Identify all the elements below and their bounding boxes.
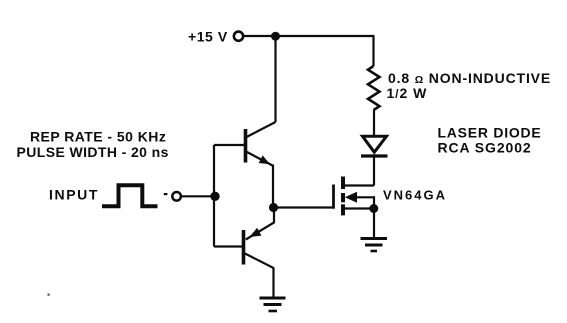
svg-text:PULSE WIDTH - 20 ns: PULSE WIDTH - 20 ns xyxy=(17,144,169,160)
svg-text:+15 V: +15 V xyxy=(188,29,228,45)
svg-text:1/2 W: 1/2 W xyxy=(387,85,428,101)
svg-text:RCA SG2002: RCA SG2002 xyxy=(438,140,532,156)
svg-text:INPUT: INPUT xyxy=(49,187,99,203)
svg-text:REP RATE - 50 KHz: REP RATE - 50 KHz xyxy=(30,129,166,145)
svg-text:0.8 Ω NON-INDUCTIVE: 0.8 Ω NON-INDUCTIVE xyxy=(388,70,551,86)
svg-text:LASER DIODE: LASER DIODE xyxy=(438,125,542,141)
svg-text:VN64GA: VN64GA xyxy=(383,188,447,203)
